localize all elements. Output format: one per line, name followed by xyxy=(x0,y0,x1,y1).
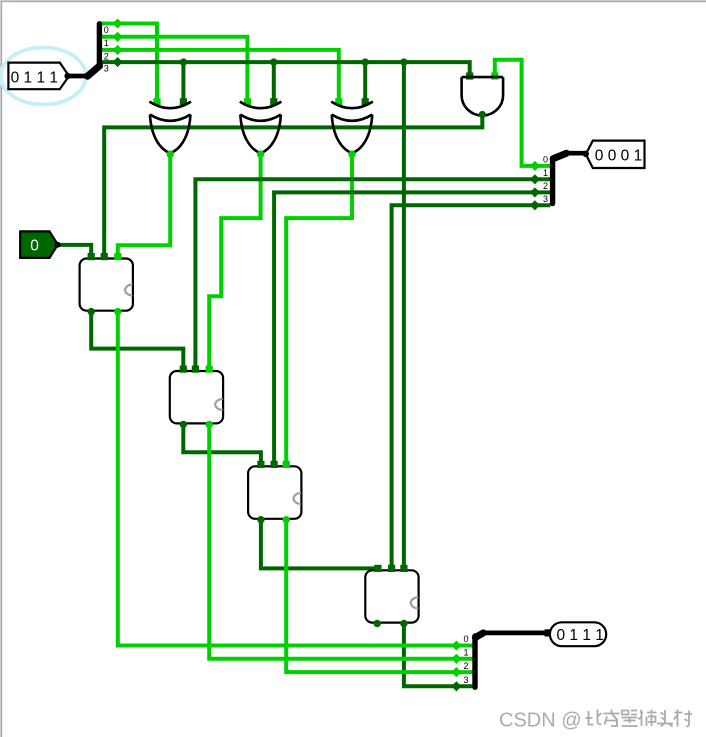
svg-text:3: 3 xyxy=(543,194,548,204)
svg-text:0: 0 xyxy=(463,634,468,644)
svg-text:0: 0 xyxy=(30,238,39,255)
svg-text:2: 2 xyxy=(104,51,109,61)
svg-text:2: 2 xyxy=(463,661,468,671)
svg-text:0: 0 xyxy=(104,25,109,35)
svg-text:3: 3 xyxy=(104,64,109,74)
svg-text:0 1 1 1: 0 1 1 1 xyxy=(557,627,604,644)
svg-text:1: 1 xyxy=(104,38,109,48)
svg-text:2: 2 xyxy=(543,181,548,191)
svg-text:0 1 1 1: 0 1 1 1 xyxy=(11,69,58,86)
svg-text:3: 3 xyxy=(463,675,468,685)
svg-text:0: 0 xyxy=(543,154,548,164)
svg-text:1: 1 xyxy=(543,168,548,178)
svg-text:CSDN @: CSDN @ xyxy=(499,710,582,732)
svg-text:0 0 0 1: 0 0 0 1 xyxy=(595,148,642,165)
svg-text:1: 1 xyxy=(463,648,468,658)
